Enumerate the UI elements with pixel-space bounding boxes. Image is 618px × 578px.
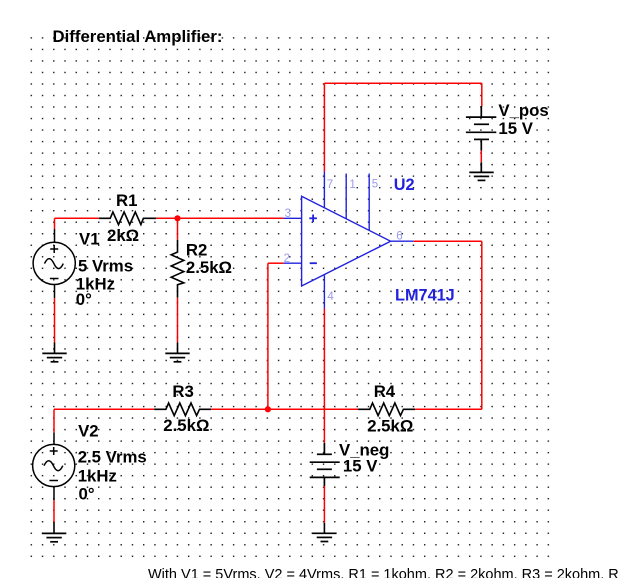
wire bottom row left (V2 corner to R3) [54,408,154,410]
wire junction to R2 [177,218,179,239]
pin 5 stub [368,174,370,231]
resistor R1 [99,212,156,225]
junction node R1/R2 [174,215,180,221]
junction node R3/R4/pin2 [265,406,271,412]
svg-text:15 V: 15 V [343,457,378,476]
svg-text:U2: U2 [394,176,415,194]
svg-text:5 Vrms: 5 Vrms [78,257,133,276]
resistor R3 [154,403,211,416]
wire Vpos rail horizontal [324,82,481,84]
svg-text:0°: 0° [79,484,95,503]
source V1 [33,229,75,298]
pin 4 stub [323,275,325,308]
wire pin2 vertical down [267,263,269,409]
svg-text:5: 5 [372,179,378,191]
svg-text:R2: R2 [186,241,207,260]
svg-text:6: 6 [396,231,402,243]
wire V1 top vertical [54,218,56,229]
wire R4 to output vertical [415,408,482,410]
svg-text:0°: 0° [76,290,92,309]
wire Vpos rail left vertical to pin7 [323,83,325,171]
svg-text:1kHz: 1kHz [78,467,117,486]
battery V_neg [310,443,340,486]
wire Vpos rail right vertical [481,83,483,106]
ground (V_pos) [469,172,493,180]
wire pin4 to V_neg [323,309,325,444]
svg-text:7: 7 [327,179,333,191]
svg-text:3: 3 [285,208,291,220]
svg-text:2.5kΩ: 2.5kΩ [367,416,413,435]
svg-text:Differential Amplifier:: Differential Amplifier: [53,27,223,46]
svg-text:V_pos: V_pos [498,101,548,120]
ground (V1) [42,353,66,361]
resistor R2 [171,240,184,298]
svg-text:V1: V1 [79,230,100,249]
wire input row left (V1 to R1) [55,217,99,219]
pin 2 stub [283,262,301,264]
ground (R2) [165,353,189,361]
wire V_neg to ground [323,486,325,523]
svg-text:2.5 Vrms: 2.5 Vrms [78,448,147,467]
wire R3 to junction and R4 [211,408,358,410]
wire pin2 horizontal [268,262,284,264]
svg-text:2kΩ: 2kΩ [107,226,139,245]
svg-text:2: 2 [284,253,290,265]
wire battery to ground [480,151,482,163]
wire R2 to ground [177,298,179,343]
battery V_pos [466,106,496,151]
svg-text:LM741J: LM741J [395,287,455,305]
source V2 [33,433,75,501]
svg-text:4: 4 [327,291,334,303]
op-amp U1 triangle [302,196,391,286]
wire V1 bottom [54,298,56,343]
svg-text:1: 1 [349,179,355,191]
pin 6 stub [391,240,414,242]
svg-text:R4: R4 [374,382,396,401]
svg-text:V2: V2 [78,421,99,440]
ground (V2) [42,533,66,541]
wire R1 to pin3 [156,217,283,219]
op-amp + input mark [309,215,317,223]
op-amp - input mark [310,262,317,264]
svg-text:2.5kΩ: 2.5kΩ [163,416,209,435]
wire V2 bottom [53,500,55,522]
pin 7 stub [323,172,325,208]
svg-text:R1: R1 [116,191,137,210]
wire output right vertical [481,241,483,409]
svg-text:R3: R3 [172,382,193,401]
wire V2 top vertical [53,409,55,432]
svg-text:15 V: 15 V [498,119,533,138]
wire output pin6 [414,240,482,242]
svg-text:With V1 = 5Vrms, V2 = 4Vrms, R: With V1 = 5Vrms, V2 = 4Vrms, R1 = 1kohm,… [148,567,618,578]
pin 3 stub [283,217,301,219]
svg-text:2.5kΩ: 2.5kΩ [186,258,232,277]
pin 1 stub [345,174,347,220]
ground (V_neg) [312,533,336,541]
resistor R4 [358,403,415,416]
